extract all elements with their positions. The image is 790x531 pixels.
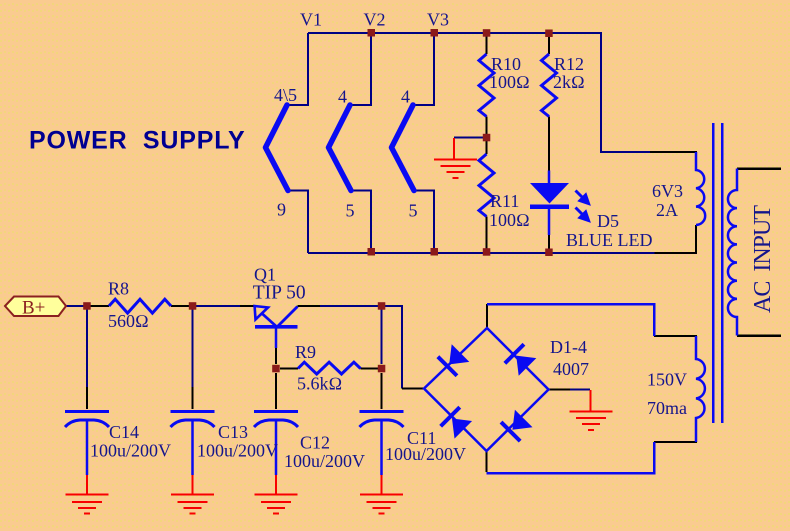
svg-text:R10: R10 <box>491 54 521 74</box>
svg-text:560Ω: 560Ω <box>108 311 149 331</box>
svg-text:9: 9 <box>277 200 286 220</box>
svg-text:V1: V1 <box>300 10 322 30</box>
svg-text:6V3: 6V3 <box>652 181 683 201</box>
svg-text:C13: C13 <box>218 422 248 442</box>
svg-text:TIP 50: TIP 50 <box>253 283 306 304</box>
svg-text:4007: 4007 <box>553 359 589 379</box>
svg-text:4\5: 4\5 <box>274 85 297 105</box>
svg-text:4: 4 <box>401 87 410 107</box>
svg-text:2kΩ: 2kΩ <box>553 72 585 92</box>
svg-text:100u/200V: 100u/200V <box>90 441 171 461</box>
svg-text:70ma: 70ma <box>647 398 687 418</box>
svg-text:5: 5 <box>409 201 418 221</box>
svg-text:5: 5 <box>346 201 355 221</box>
svg-text:D5: D5 <box>597 211 619 231</box>
svg-text:2A: 2A <box>656 200 678 220</box>
svg-text:V3: V3 <box>427 10 449 30</box>
svg-text:POWER SUPPLY: POWER SUPPLY <box>29 127 245 155</box>
svg-text:5.6kΩ: 5.6kΩ <box>297 374 342 394</box>
svg-text:100u/200V: 100u/200V <box>284 451 365 471</box>
svg-text:D1-4: D1-4 <box>550 337 587 357</box>
svg-text:C12: C12 <box>300 433 330 453</box>
svg-text:R9: R9 <box>295 342 316 362</box>
svg-text:B+: B+ <box>22 298 45 319</box>
svg-text:C14: C14 <box>109 422 139 442</box>
svg-text:R11: R11 <box>490 191 519 211</box>
svg-text:V2: V2 <box>364 10 386 30</box>
svg-text:Q1: Q1 <box>254 265 276 285</box>
svg-text:100u/200V: 100u/200V <box>197 441 278 461</box>
svg-text:100Ω: 100Ω <box>489 72 530 92</box>
svg-text:100Ω: 100Ω <box>489 210 530 230</box>
svg-text:BLUE LED: BLUE LED <box>566 230 652 250</box>
svg-text:150V: 150V <box>647 370 687 390</box>
svg-text:AC INPUT: AC INPUT <box>750 205 776 313</box>
svg-text:4: 4 <box>338 87 347 107</box>
svg-text:R12: R12 <box>554 54 584 74</box>
svg-text:R8: R8 <box>108 279 129 299</box>
svg-text:100u/200V: 100u/200V <box>385 444 466 464</box>
